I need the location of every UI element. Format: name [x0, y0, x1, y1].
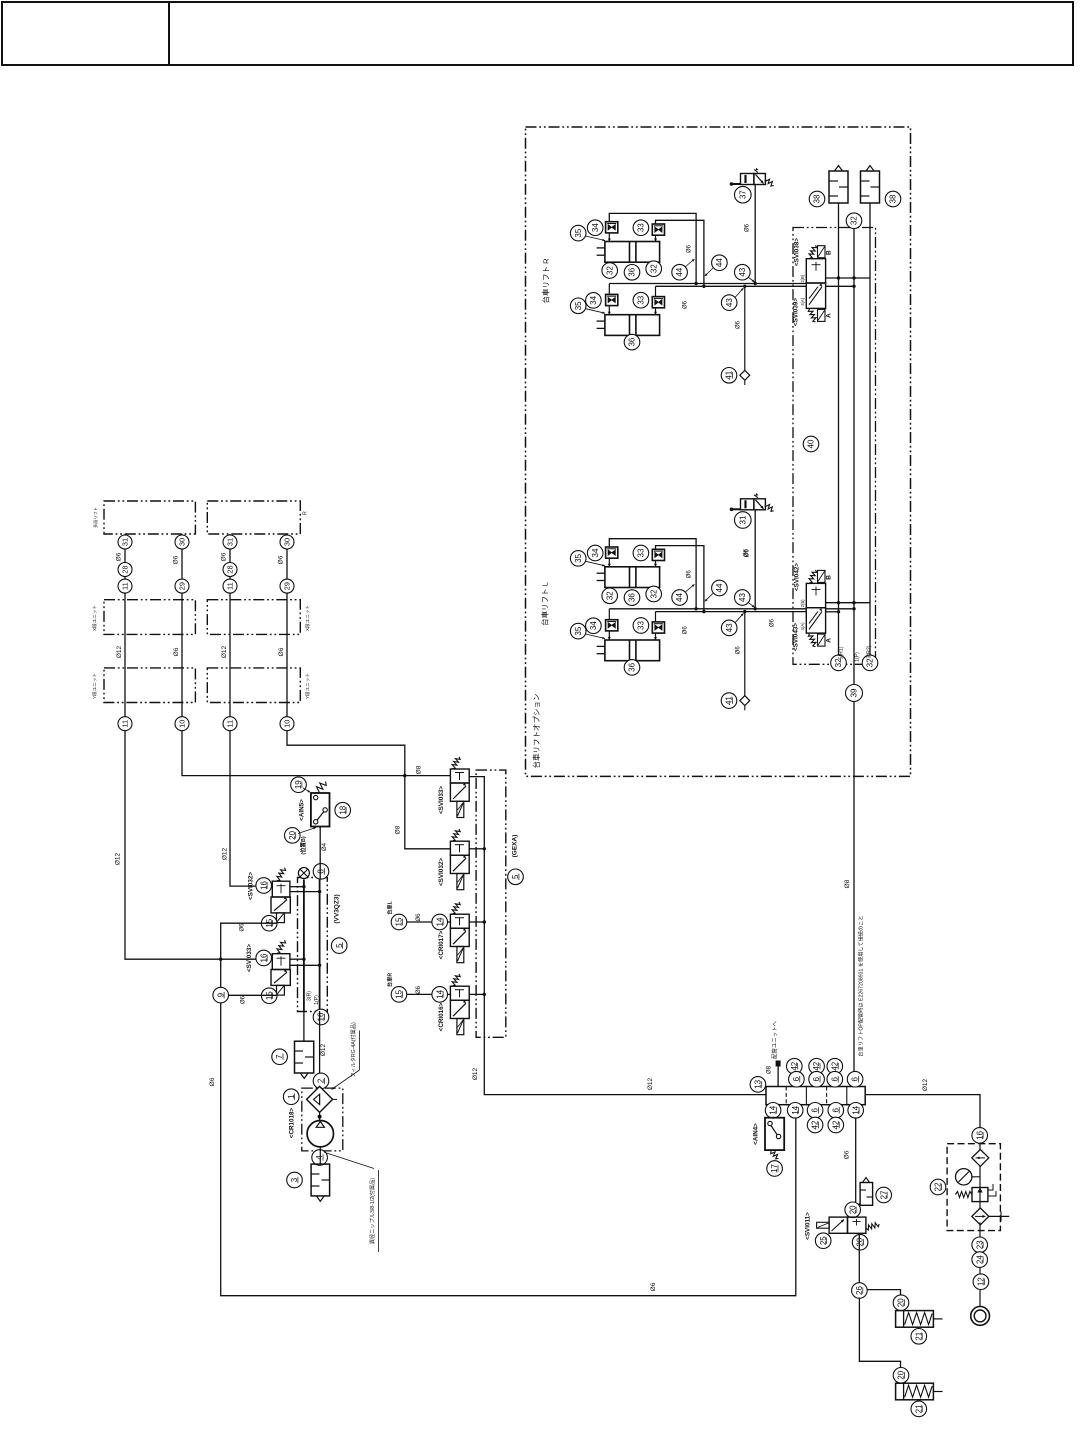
balloon 44 (tube): [672, 590, 688, 606]
junction r17: [483, 920, 486, 923]
wire CRI016 feed: [392, 993, 451, 995]
svg-text:32: 32: [605, 266, 614, 275]
svg-text:多段リフト: 多段リフト: [92, 507, 99, 528]
drain line R: [744, 286, 746, 372]
wire W4 col x287: [287, 534, 450, 849]
balloon 2 (fitting): [313, 1073, 329, 1089]
svg-text:Ø4: Ø4: [322, 842, 328, 851]
AIN5 drop wire: [319, 827, 321, 880]
option box row2 right: [207, 600, 300, 635]
balloon 6 (port): [827, 1071, 843, 1087]
valve CRI017: [450, 914, 469, 963]
flow control R-l-right: [652, 297, 664, 308]
junction R j1: [694, 282, 697, 285]
junction rv2: [852, 276, 855, 279]
leader 43b R: [735, 288, 744, 298]
balloon 43 (tube): [735, 264, 751, 280]
solenoid valve SVI038/SVI039 body: [806, 259, 825, 309]
svg-text:Ø6: Ø6: [687, 244, 693, 253]
wire L pair lower: [656, 611, 807, 613]
wire SVi033 pilot: [221, 994, 277, 996]
balloon 27 (check): [876, 1187, 892, 1203]
svg-text:<SVI032>: <SVI032>: [248, 872, 255, 900]
wire SVi033 port B: [290, 964, 319, 966]
balloon 42 (check): [827, 1058, 843, 1074]
SVI038 pilot: [818, 246, 826, 258]
junction pB32: [318, 890, 321, 893]
balloon 15 (fitting): [261, 915, 277, 931]
muffler 21a: [896, 1311, 943, 1328]
AIN5 spring: [316, 782, 327, 793]
svg-text:Ø6: Ø6: [278, 555, 285, 564]
balloon 32 (fitting): [646, 261, 662, 277]
balloon 42 (check): [828, 1117, 844, 1133]
svg-text:44: 44: [715, 258, 724, 267]
svg-text:Ø6: Ø6: [416, 985, 422, 994]
balloon 6 (port): [807, 1103, 823, 1119]
wire SVi032 port B: [290, 891, 319, 893]
balloon 22 (FRL): [930, 1179, 946, 1195]
svg-text:2(B): 2(B): [800, 599, 805, 608]
AIN4 spring: [771, 1151, 779, 1159]
svg-text:34: 34: [591, 548, 600, 557]
svg-text:30: 30: [283, 538, 292, 546]
pressure switch AIN5: [311, 793, 330, 827]
37R drop: [754, 185, 756, 284]
balloon 43 (tube): [721, 620, 737, 636]
wire SVI032R out: [469, 848, 484, 850]
svg-text:11: 11: [226, 582, 235, 590]
SVI043 pilot: [818, 634, 826, 646]
option box row1 right: [207, 501, 300, 534]
svg-text:配管ユニットへ: 配管ユニットへ: [771, 1021, 779, 1059]
valve SVi033-main spring: [277, 940, 286, 953]
CR1018 box: [302, 1088, 343, 1151]
svg-text:43: 43: [725, 623, 734, 632]
svg-text:32: 32: [649, 264, 658, 273]
svg-text:35: 35: [574, 228, 583, 237]
svg-text:38: 38: [813, 194, 822, 203]
svg-text:Ø12: Ø12: [222, 847, 229, 860]
drop from manifold R: [319, 1011, 321, 1088]
unit 3: [311, 1164, 330, 1201]
svg-text:33: 33: [637, 223, 646, 232]
svg-text:Ø8: Ø8: [767, 1065, 773, 1074]
balloon 28 (port): [223, 563, 237, 577]
balloon 40 (group): [803, 436, 819, 452]
regulator: [972, 1184, 996, 1202]
wire W1 col x125: [125, 534, 271, 959]
wire to SVi011: [855, 1117, 857, 1217]
pump: [307, 1121, 333, 1147]
svg-text:Ø6: Ø6: [278, 647, 285, 656]
leader 43a L: [748, 602, 755, 607]
balloon 16 (fitting): [256, 878, 272, 894]
balloon 42 (check): [807, 1117, 823, 1133]
wire L pair upper: [609, 608, 806, 610]
svg-text:29: 29: [283, 582, 292, 590]
balloon 18 (part): [335, 802, 351, 818]
balloon 32 (tube): [831, 655, 847, 671]
drop from manifold P: [303, 1011, 305, 1041]
option box row1 left: [104, 501, 195, 534]
svg-text:Ø6: Ø6: [241, 995, 247, 1004]
junction R j3: [754, 282, 757, 285]
wire W3 col x230: [230, 534, 272, 886]
balloon 20 (part): [285, 828, 301, 844]
air coupler: [971, 1307, 990, 1326]
svg-text:3(R): 3(R): [307, 991, 313, 1001]
flow control R-l-left: [606, 294, 618, 305]
FRL out: [979, 1222, 981, 1237]
L upper conn: [608, 558, 610, 567]
svg-text:1(P): 1(P): [855, 652, 861, 662]
junction R j4: [743, 285, 746, 288]
svg-text:Ø6: Ø6: [745, 223, 751, 232]
balloon 5 (assy): [331, 938, 347, 954]
balloon 36 (cyl): [624, 660, 640, 676]
balloon 44 (tube): [712, 255, 728, 271]
line through FRL: [979, 1166, 981, 1208]
FRL feed: [979, 1144, 981, 1150]
svg-text:43: 43: [725, 298, 734, 307]
junction lv1: [837, 601, 840, 604]
wire GEXA rail: [469, 777, 980, 1136]
hand valve 37L spring: [765, 504, 773, 512]
balloon 6 (port): [847, 1071, 863, 1087]
leader 44b L: [705, 593, 713, 601]
svg-text:Ø6: Ø6: [116, 552, 123, 561]
flow control L-l-left: [606, 620, 618, 631]
leader 19: [303, 788, 310, 792]
junction lv3: [852, 607, 855, 610]
balloon 36 (cyl): [624, 334, 640, 350]
svg-text:(位置B): (位置B): [299, 836, 307, 854]
svg-text:<SVI042>: <SVI042>: [794, 563, 801, 591]
balloon 8 (port): [313, 864, 329, 880]
balloon 34 (fcv): [586, 293, 602, 309]
balloon 35 (fitting): [570, 623, 586, 639]
balloon 30 (port): [175, 535, 189, 549]
balloon 14 (fitting): [432, 987, 448, 1003]
R upper conn: [608, 233, 610, 242]
hand valve 37L: [730, 493, 766, 511]
filter diamond: [972, 1149, 989, 1166]
balloon 31 (port): [223, 535, 237, 549]
balloon 23 (fitting): [972, 1237, 988, 1253]
valve SVi033-main body: [271, 954, 290, 995]
regulator spring: [955, 1192, 972, 1198]
flow control R-u-right: [652, 224, 664, 235]
note nipple: [324, 1152, 374, 1168]
manifold top stubs: [795, 1082, 797, 1087]
muffler 21b: [896, 1383, 943, 1400]
svg-text:Ø6: Ø6: [209, 1077, 216, 1086]
balloon 30 (port): [280, 535, 294, 549]
balloon 29 (port): [280, 579, 294, 593]
balloon 38 (acc): [885, 191, 901, 207]
svg-text:Ø6: Ø6: [744, 548, 750, 557]
svg-text:A: A: [826, 638, 833, 643]
piping unit manifold: [766, 1087, 865, 1105]
balloon 32 (fitting): [602, 263, 618, 279]
leader 43a R: [748, 277, 755, 282]
svg-text:28: 28: [226, 565, 235, 573]
svg-text:31: 31: [121, 538, 130, 546]
cylinder L-upper: [597, 567, 660, 588]
svg-text:Ø12: Ø12: [115, 852, 122, 865]
junction pilot joins SVi033 feed: [219, 958, 222, 961]
svg-text:Ø8: Ø8: [416, 765, 423, 774]
junction lv4: [837, 610, 840, 613]
cylinder L-lower: [597, 640, 660, 661]
svg-text:X段ユニット: X段ユニット: [304, 605, 311, 631]
balloon 6 (port): [789, 1071, 805, 1087]
svg-text:32: 32: [850, 216, 859, 225]
svg-text:<SVI038>: <SVI038>: [794, 238, 801, 266]
svg-text:<CRI016>: <CRI016>: [438, 1002, 445, 1031]
balloon 32 (tube): [846, 213, 862, 229]
junction L j3: [754, 607, 757, 610]
svg-text:Ø6: Ø6: [173, 647, 180, 656]
balloon 15 (fitting): [391, 987, 407, 1003]
balloon 12 (coupler): [973, 1274, 989, 1290]
balloon 6 (port): [828, 1103, 844, 1119]
wire L upper right wire: [656, 546, 704, 612]
junction pA32: [302, 885, 305, 888]
balloon 21 (muffler): [911, 1401, 927, 1417]
wire R valve out 1: [826, 277, 870, 279]
svg-text:台車L: 台車L: [386, 900, 394, 914]
svg-text:Ø6: Ø6: [736, 646, 742, 655]
svg-text:Ø6: Ø6: [650, 1282, 657, 1291]
balloon 20 (fitting): [852, 1234, 868, 1250]
wire CRI017 feed: [392, 921, 451, 923]
svg-text:35: 35: [574, 301, 583, 310]
balloon 37 (hand valve): [735, 186, 752, 203]
balloon 34 (fcv): [586, 618, 602, 634]
flow control L-u-right: [652, 549, 664, 560]
balloon 34 (fcv): [587, 220, 603, 236]
wire R upper left wire: [609, 213, 696, 283]
wire R pair lower: [656, 285, 807, 287]
svg-text:Ø8: Ø8: [844, 879, 851, 888]
svg-text:34: 34: [589, 295, 598, 304]
balloon 1 (part): [283, 1089, 299, 1105]
balloon 38 (acc): [809, 191, 825, 207]
wire line 5(R1): [838, 203, 840, 655]
balloon 31 (port): [118, 535, 132, 549]
svg-text:11: 11: [121, 582, 130, 590]
SVI042 pilot: [818, 570, 826, 582]
check valve 27: [856, 1178, 873, 1208]
option box row3 left: [104, 668, 195, 703]
svg-text:32: 32: [649, 589, 658, 598]
balloon 21 (muffler): [911, 1329, 927, 1345]
svg-text:40: 40: [807, 439, 816, 448]
svg-text:Ø12: Ø12: [116, 645, 123, 658]
svg-text:43: 43: [738, 267, 747, 276]
balloon 14 (port): [848, 1103, 864, 1119]
svg-text:Ø6: Ø6: [770, 618, 776, 627]
balloon 20 (fitting): [893, 1368, 909, 1384]
svg-text:43: 43: [738, 593, 747, 602]
balloon 42 (check): [809, 1058, 825, 1074]
37L drop: [754, 510, 756, 609]
balloon 32 (tube): [862, 655, 878, 671]
balloon 17 (part): [767, 1161, 783, 1177]
svg-text:R: R: [303, 511, 309, 515]
svg-text:36: 36: [628, 337, 637, 346]
junction rv3: [852, 285, 855, 288]
balloon 33 (fcv): [633, 292, 649, 308]
valve SVI032 spring: [452, 829, 460, 841]
wire SVi033 port A: [290, 958, 304, 960]
svg-text:Ø6: Ø6: [683, 626, 689, 635]
junction pB33: [318, 964, 321, 967]
flow control L-u-left: [606, 547, 618, 558]
wire SVi032 pilot: [221, 923, 796, 1295]
balloon 44 (tube): [712, 580, 728, 596]
wire CRI016 out: [469, 993, 484, 995]
balloon 14 (fitting): [432, 914, 448, 930]
svg-text:30: 30: [178, 538, 187, 546]
header title block: [2, 2, 1073, 65]
svg-text:Ø8: Ø8: [395, 825, 402, 834]
svg-text:4(A): 4(A): [800, 622, 805, 631]
balloon 43 (tube): [735, 590, 751, 606]
balloon 9 (node): [213, 987, 229, 1003]
manifold inner line R: [319, 879, 321, 1011]
R lower conn: [608, 306, 610, 315]
L lower conn: [608, 631, 610, 640]
FRL box: [947, 1144, 1000, 1231]
svg-text:44: 44: [675, 593, 684, 602]
option box row2 left: [104, 600, 195, 635]
balloon 35 (fitting): [570, 298, 586, 314]
balloon 33 (fcv): [633, 618, 649, 634]
svg-text:11: 11: [226, 720, 235, 728]
balloon 33 (fcv): [633, 545, 649, 561]
svg-text:36: 36: [628, 593, 637, 602]
inner box 40: [793, 228, 876, 665]
balloon 41 (drain): [721, 693, 737, 709]
wire R pair upper: [609, 283, 806, 285]
svg-text:Ø12: Ø12: [221, 645, 228, 658]
svg-text:Ø6: Ø6: [173, 555, 180, 564]
balloon 20 (fitting): [893, 1295, 909, 1311]
junction R j2: [702, 285, 705, 288]
svg-text:<SVI033>: <SVI033>: [246, 944, 253, 972]
wire CRI017 out: [469, 921, 484, 923]
balloon 28 (port): [118, 563, 132, 577]
junction L j1: [694, 607, 697, 610]
balloon 42 (check): [787, 1058, 803, 1074]
balloon 7 (filter): [272, 1049, 288, 1065]
junction r16: [483, 993, 486, 996]
valve SVi032-main spring: [277, 868, 286, 881]
limit switch AIN4: [765, 1118, 784, 1150]
svg-text:29: 29: [178, 582, 187, 590]
svg-text:台車リフト R: 台車リフト R: [541, 258, 551, 304]
svg-text:11: 11: [121, 720, 130, 728]
balloon 4 (fitting): [312, 1150, 328, 1166]
svg-text:X段ユニット: X段ユニット: [91, 605, 98, 631]
svg-text:36: 36: [628, 267, 637, 276]
balloon 41 (drain): [721, 368, 737, 384]
svg-text:<AIN4>: <AIN4>: [753, 1123, 760, 1145]
svg-text:44: 44: [675, 267, 684, 276]
svg-text:33: 33: [637, 295, 646, 304]
manifold bottom stubs: [772, 1105, 774, 1110]
plug symbol: [298, 868, 309, 879]
balloon 32 (fitting): [646, 586, 662, 602]
SVi011 spring: [866, 1223, 879, 1230]
balloon 34 (fcv): [587, 545, 603, 561]
solenoid valve SVI042/SVI043 body: [806, 583, 825, 633]
svg-text:Ø6: Ø6: [416, 913, 422, 922]
balloon 6 (port): [809, 1071, 825, 1087]
pump junction: [319, 1112, 321, 1120]
svg-text:Ø12: Ø12: [320, 1043, 327, 1056]
balloon 25 (sol): [815, 1233, 831, 1249]
wire SVi032 port A: [290, 886, 304, 888]
manifold VV3QZ3 outline: [298, 878, 328, 1012]
balloon 10 (port): [280, 717, 294, 731]
junction W4 joins Ø8 line: [403, 774, 406, 777]
balloon 5 (assy): [508, 869, 524, 885]
wire muffler1 wire: [867, 1290, 901, 1295]
balloon 29 (port): [175, 579, 189, 593]
svg-text:<SVI033>: <SVI033>: [438, 786, 445, 814]
filter 7: [295, 1041, 314, 1078]
svg-text:Ø12: Ø12: [922, 1078, 929, 1091]
wire line 1(P) supply: [853, 228, 855, 1087]
option box row3 right: [207, 668, 300, 703]
wire R upper right wire: [656, 220, 704, 286]
junction r32: [483, 847, 486, 850]
svg-text:B: B: [826, 250, 833, 255]
svg-text:10: 10: [283, 720, 292, 728]
balloon 14 (port): [765, 1103, 781, 1119]
svg-text:32: 32: [605, 591, 614, 600]
leader 35l R: [586, 309, 606, 314]
svg-text:1(P): 1(P): [314, 995, 320, 1005]
svg-text:<CR1018>: <CR1018>: [289, 1107, 296, 1138]
line pump to 3: [319, 1147, 321, 1164]
balloon 16 (fitting): [972, 1128, 988, 1144]
leader 44a R: [685, 259, 695, 267]
wire SVi011 out: [858, 1233, 860, 1290]
flow control R-u-left: [606, 222, 618, 233]
svg-text:異径ニップル3/8-1/2(付属品): 異径ニップル3/8-1/2(付属品): [368, 1178, 376, 1245]
header divider: [168, 2, 170, 65]
balloon 11 (port): [223, 717, 237, 731]
junction rv1: [837, 276, 840, 279]
drain plug R: [740, 370, 750, 385]
svg-text:Ø6: Ø6: [687, 570, 693, 579]
valve CRI017 spring: [452, 902, 460, 914]
junction lv2: [852, 601, 855, 604]
balloon 31 (hand valve): [735, 512, 752, 529]
balloon 19 (part): [291, 777, 307, 793]
wire line 3(R2): [869, 203, 871, 655]
drain line L: [744, 612, 746, 698]
svg-text:Ø6: Ø6: [736, 320, 742, 329]
balloon 16 (fitting): [256, 950, 272, 966]
balloon 36 (cyl): [624, 590, 640, 606]
balloon 15 (fitting): [261, 988, 277, 1004]
